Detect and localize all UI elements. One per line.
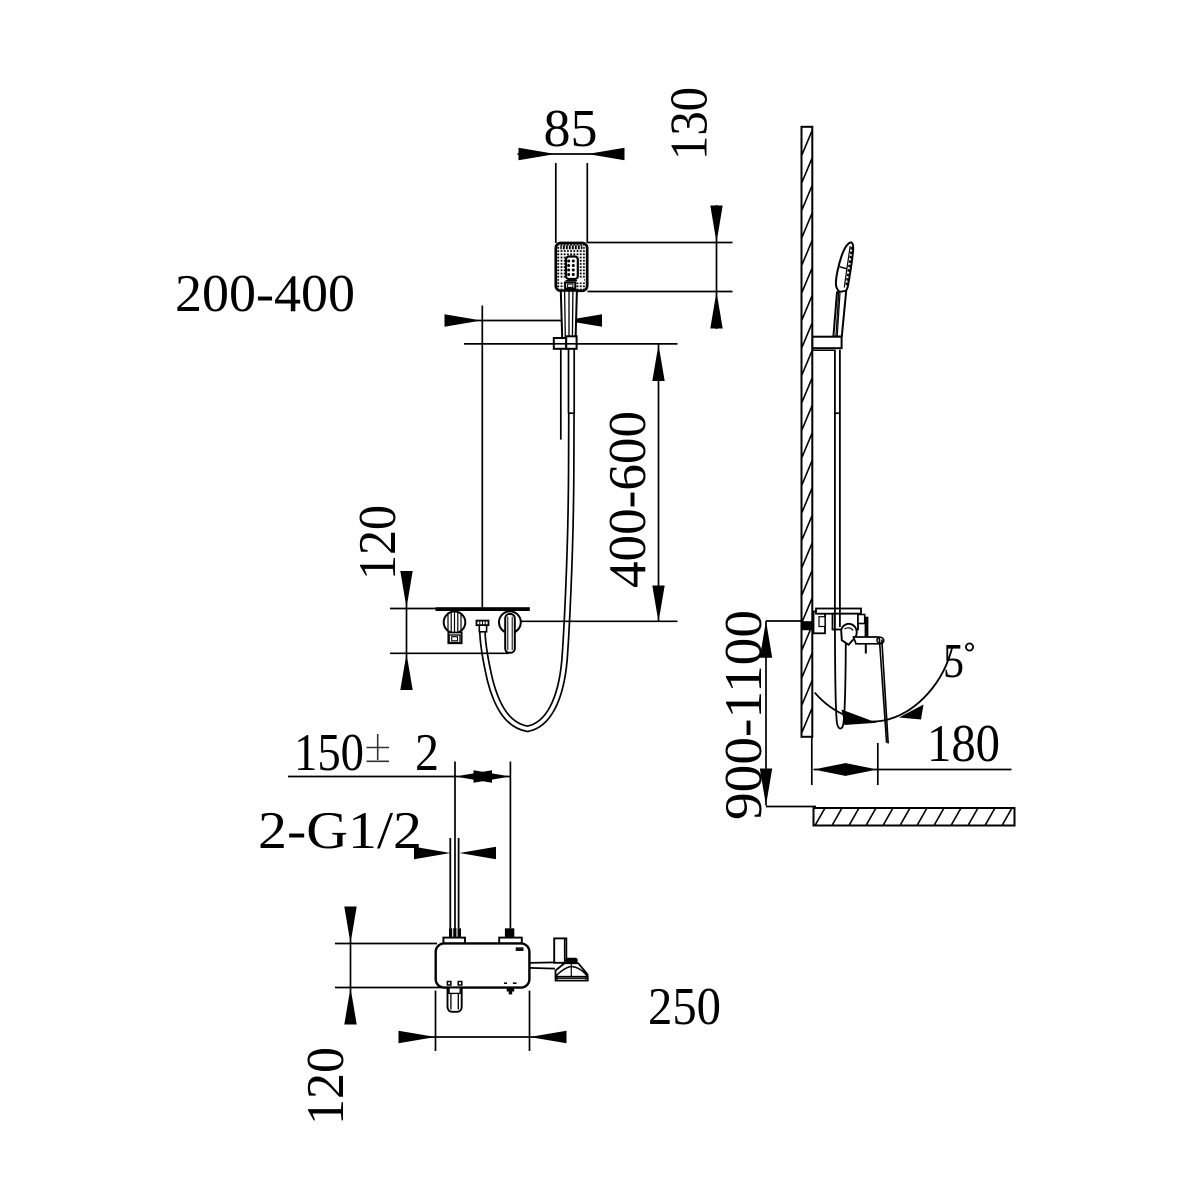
right escutcheon circle [499, 611, 521, 633]
svg-text:200-400: 200-400 [175, 265, 355, 323]
arrow 200-400 left [445, 314, 482, 326]
body top flange [816, 609, 861, 614]
handle inner lines [565, 291, 573, 338]
outlet arm [854, 637, 884, 644]
ref tick at floor [766, 806, 816, 808]
arrow 85 left [519, 148, 556, 160]
arc arrowhead right [899, 705, 924, 720]
extension line wand bottom [877, 743, 879, 785]
arrow 130 top [710, 206, 722, 243]
head inner window [566, 257, 578, 280]
svg-text:2-G1/2: 2-G1/2 [258, 802, 422, 860]
head top comb band [560, 245, 582, 249]
ref line body top [335, 943, 437, 945]
arrow 85 right [588, 148, 625, 160]
mounting bar [436, 607, 530, 611]
dim line 150+-2 [288, 776, 511, 778]
arrow 400-600 top [652, 345, 664, 382]
extension line right inlet [509, 762, 511, 929]
ref line mixer top [390, 608, 437, 610]
dim 150+-2 [288, 762, 511, 946]
svg-text:400-600: 400-600 [599, 411, 657, 588]
svg-text:85: 85 [544, 100, 598, 158]
knob right [858, 615, 865, 624]
svg-text:900-1100: 900-1100 [715, 610, 773, 820]
arrow 120 bottom [400, 654, 412, 691]
wall face extension line [811, 737, 813, 785]
handle top view: vertical rect [554, 938, 566, 962]
5 degree arc [815, 645, 953, 721]
stray vertical line left of wand [560, 349, 562, 440]
extension line left of 85 [555, 163, 557, 243]
diverter stub [507, 988, 515, 992]
arrow 200-400 right [565, 314, 602, 326]
plus-minus symbol [367, 734, 390, 761]
slider bracket left block [554, 338, 566, 349]
ref line 400-600 bottom [518, 620, 678, 622]
dim line 180 [814, 769, 1012, 771]
hose front view outer [482, 413, 571, 729]
dim line 900-1100 [765, 621, 767, 806]
left escutcheon circle [444, 612, 466, 634]
dim line 120 [406, 571, 408, 690]
side view shower head [836, 242, 853, 292]
spout top view [448, 988, 462, 1012]
redraw ref line over slider [464, 343, 678, 345]
arm lines [529, 961, 555, 964]
wand tube below slider [561, 349, 575, 440]
spout hook [841, 624, 857, 645]
extension line right of 85 [586, 163, 588, 243]
floor slab [814, 808, 1015, 826]
lever handle [505, 614, 515, 653]
dim line 85 [518, 153, 625, 155]
dashes [504, 982, 507, 984]
hose nut tick [568, 412, 575, 414]
svg-text:120: 120 [349, 505, 407, 580]
slider bracket right block [566, 336, 576, 349]
left hex nut [449, 928, 461, 937]
knurl lines [448, 612, 461, 634]
left flange [443, 938, 465, 944]
dim line 130 [716, 205, 718, 329]
svg-text:120: 120 [297, 1047, 355, 1125]
extension line faucet axis [481, 306, 483, 608]
small outlet square at head bottom [565, 282, 575, 288]
shower head face (dotted) [556, 243, 587, 291]
side view handle [833, 291, 846, 337]
ref line 130 top [588, 242, 733, 244]
wall [802, 127, 813, 761]
handle black cap [565, 958, 578, 963]
handle base [556, 977, 588, 981]
svg-text:180: 180 [927, 715, 1000, 773]
inner dots 2x4 [567, 260, 575, 277]
svg-text:130: 130 [661, 87, 719, 160]
hose connector middle [477, 621, 489, 626]
ref line 120 bottom [390, 652, 509, 654]
hose front view inner white [482, 413, 571, 729]
white band bottom of head [559, 279, 584, 283]
dim line 400-600 [658, 345, 660, 623]
handle head [556, 963, 588, 977]
inlet pipes top view [450, 838, 458, 928]
body top view [436, 943, 530, 987]
svg-text:2: 2 [415, 724, 439, 782]
svg-text:250: 250 [648, 978, 721, 1036]
lever bar upper [865, 617, 869, 637]
ref line 130 bottom [588, 291, 733, 293]
escutcheon side [814, 612, 826, 634]
arrow 400-600 bottom [652, 586, 664, 623]
arrow 120 top [400, 571, 412, 608]
side view slider bracket [812, 337, 841, 349]
svg-text:5: 5 [943, 633, 964, 688]
svg-text:150: 150 [294, 724, 364, 782]
ref tick at mixer center [766, 620, 802, 622]
arc arrowhead left [842, 710, 878, 726]
2-G1/2 arrows [414, 847, 451, 859]
side view hose [835, 350, 846, 729]
extension line left inlet [454, 762, 456, 946]
body [833, 614, 859, 630]
right hex nut [505, 928, 514, 937]
diverter below left knob [448, 633, 461, 644]
dim line 250 [399, 1036, 566, 1038]
shower handle front view [561, 291, 577, 338]
right flange [499, 938, 522, 944]
dim line 120 bottom [350, 907, 352, 1025]
dim line 200-400 [445, 320, 603, 322]
supply pipe in wall (black) [802, 621, 813, 630]
label plate [516, 947, 524, 951]
ref line body bottom [335, 987, 478, 989]
extension line body left [435, 991, 437, 1051]
arrow 130 bottom [710, 292, 722, 329]
extension line body right [529, 991, 531, 1051]
ref line top (at slider) [464, 343, 678, 345]
lever bar lower tick [865, 644, 867, 654]
small squares [447, 982, 451, 986]
tilted wand lines (5 deg) [879, 638, 886, 743]
